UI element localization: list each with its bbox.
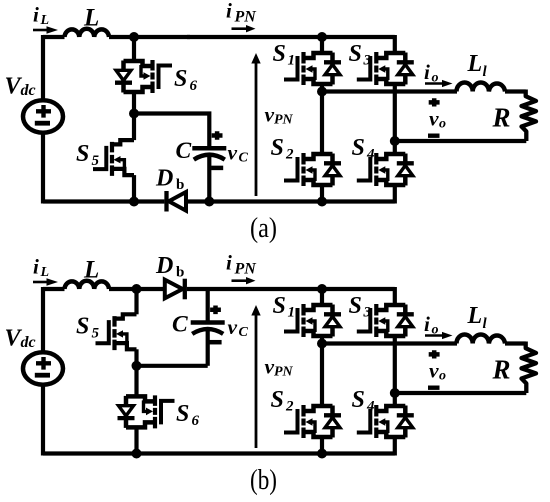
S5 drain wire (a): [132, 114, 136, 141]
svg-text:S: S: [176, 401, 189, 427]
S6 drain wire (a): [132, 37, 136, 61]
diode Db cathode bar (b): [183, 279, 187, 300]
capacitor plus sign (b): [210, 306, 221, 315]
svg-text:6: 6: [190, 78, 198, 94]
diode Db triangle (b): [165, 280, 183, 299]
svg-text:S: S: [76, 141, 89, 167]
svg-text:S: S: [76, 314, 89, 340]
node dot S6 on bottom rail (b): [132, 449, 142, 459]
top rail node to diode (b): [137, 287, 165, 291]
svg-text:C: C: [176, 138, 192, 164]
S5 source wire (a): [132, 175, 136, 203]
node dot below S5 (b): [132, 361, 142, 371]
S6 source wire (b): [134, 427, 138, 453]
wire node to capacitor bottom (b): [137, 364, 208, 368]
H-bridge and output network (a): [187, 0, 536, 207]
diode Db triangle (a): [169, 192, 186, 211]
top rail node to diode (a): [134, 35, 190, 39]
transistor S6 (b): [118, 395, 175, 428]
source-inductor branch (a): [5, 3, 138, 204]
svg-text:(b): (b): [250, 464, 277, 496]
svg-text:5: 5: [92, 153, 100, 169]
svg-text:C: C: [172, 312, 188, 338]
transistor S6 (a): [115, 60, 172, 93]
svg-text:v: v: [228, 141, 238, 165]
capacitor C (b): [191, 323, 225, 334]
bottom rail left of diode (a): [43, 199, 164, 203]
node dot below S6 (a): [129, 109, 139, 119]
bottom rail right of diode (a): [186, 199, 395, 203]
capacitor top wire (b): [206, 289, 210, 321]
svg-text:5: 5: [92, 326, 100, 342]
svg-text:C: C: [239, 151, 249, 166]
S6 source wire (a): [132, 92, 136, 114]
diode Db cathode bar (a): [164, 191, 168, 212]
svg-text:b: b: [176, 177, 184, 193]
node dot top of S5 (b): [132, 284, 142, 294]
bottom rail (b): [43, 451, 395, 455]
svg-text:C: C: [239, 325, 249, 340]
node dot capacitor on bottom rail (a): [204, 197, 214, 207]
capacitor minus sign (b): [210, 340, 222, 345]
svg-text:b: b: [176, 265, 184, 281]
node dot top of S6: [129, 32, 139, 42]
transistor S5 (b): [96, 314, 137, 350]
capacitor C (a): [192, 148, 226, 159]
svg-text:S: S: [174, 66, 187, 92]
S5 source wire (b): [134, 349, 138, 366]
wire node to capacitor top (a): [134, 114, 209, 147]
capacitor bottom wire (a): [207, 154, 211, 204]
capacitor bottom wire (b): [206, 328, 210, 366]
capacitor minus sign (a): [211, 166, 223, 171]
svg-text:v: v: [228, 315, 238, 339]
capacitor plus sign (a): [212, 131, 223, 140]
S5 drain wire (b): [134, 289, 138, 314]
source-inductor branch (b): [5, 255, 138, 456]
svg-text:D: D: [155, 166, 173, 192]
transistor S5 (a): [93, 140, 134, 176]
H-bridge and output network (b): [187, 251, 536, 459]
svg-text:(a): (a): [250, 212, 277, 244]
svg-text:D: D: [155, 253, 173, 279]
node dot S5-source on bottom rail (a): [129, 197, 139, 207]
S6 drain wire (b): [134, 366, 138, 397]
svg-text:6: 6: [192, 413, 200, 429]
